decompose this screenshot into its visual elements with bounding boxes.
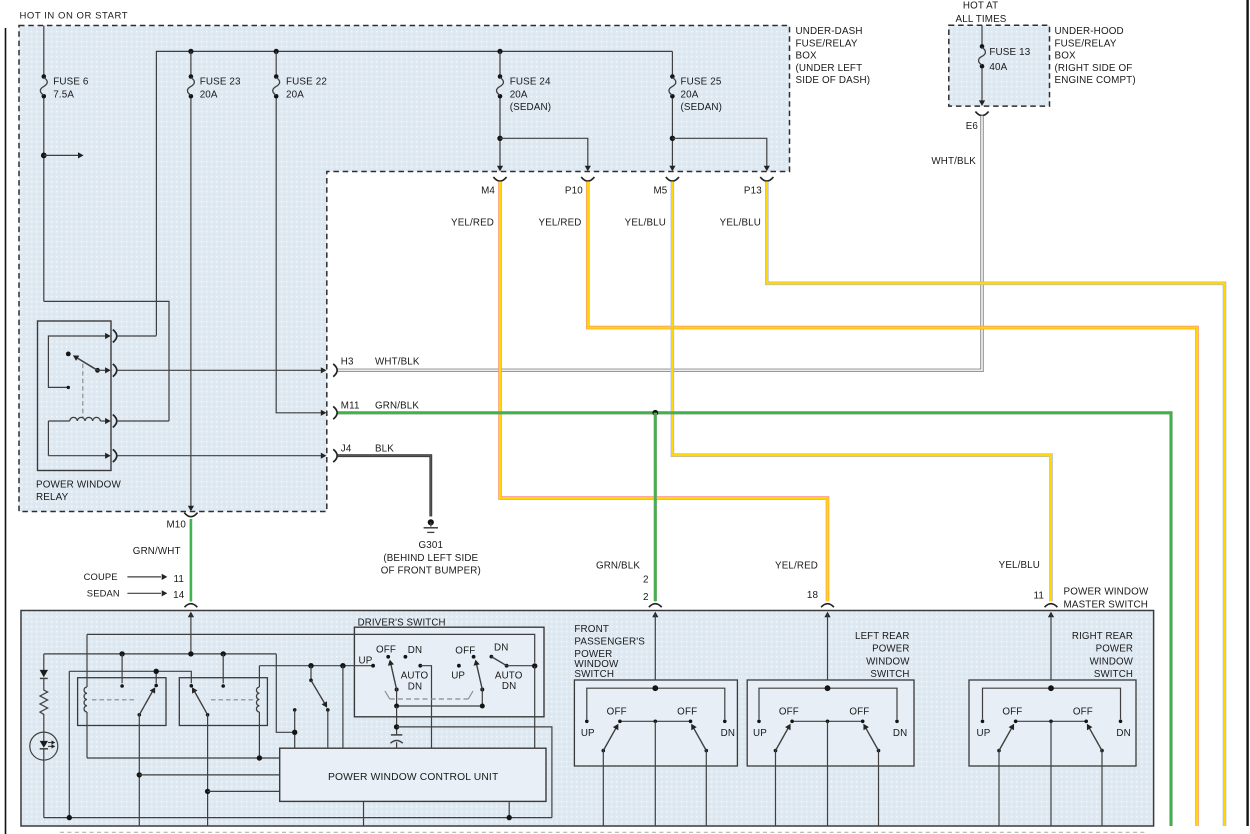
svg-text:COUPE: COUPE: [84, 571, 118, 582]
svg-text:YEL/BLU: YEL/BLU: [720, 217, 761, 228]
wire DN2 to AUTODN2: [491, 657, 506, 666]
wire pin11 inside: [1050, 614, 1052, 688]
relay contact fixed: [67, 386, 70, 389]
relay2 box: [179, 678, 267, 726]
wire CU bottom pin1: [363, 801, 365, 826]
wire fuse25 lower: [671, 98, 673, 166]
svg-text:OFF: OFF: [1073, 707, 1093, 718]
wire fuse6 to coil riser: [44, 301, 169, 421]
left rear switch top wire: [759, 688, 897, 719]
svg-text:HOT AT: HOT AT: [963, 1, 998, 12]
wire GRN/BLK branch: [654, 413, 657, 601]
svg-text:GRN/BLK: GRN/BLK: [375, 400, 419, 411]
switch arm 2: [480, 688, 484, 692]
relay2 mech link: [211, 699, 254, 701]
connector pin18 in: [821, 604, 834, 608]
wire relay pin3 ext: [117, 420, 169, 422]
relay common dot: [95, 368, 100, 373]
svg-text:18: 18: [807, 590, 819, 601]
svg-text:PASSENGER'S: PASSENGER'S: [574, 636, 645, 647]
svg-text:(RIGHT SIDE OF: (RIGHT SIDE OF: [1055, 63, 1133, 74]
right rear switch wire down left: [998, 751, 1000, 826]
wire ground link drop: [68, 671, 70, 817]
svg-text:E6: E6: [966, 121, 979, 132]
right rear switch box: [969, 680, 1136, 766]
svg-text:FUSE 6: FUSE 6: [53, 77, 89, 88]
contact OFF2: [472, 655, 476, 659]
fuse F23: [189, 74, 194, 79]
diode D1: [40, 670, 48, 677]
arrow M4 exit: [497, 166, 503, 172]
right rear switch right arm: [1100, 749, 1104, 753]
svg-text:FUSE/RELAY: FUSE/RELAY: [796, 38, 858, 49]
svg-text:OFF: OFF: [849, 707, 869, 718]
relay bracket p1: [113, 330, 117, 343]
wire GRN/WHT M10: [189, 519, 192, 602]
node coil2 join: [257, 755, 262, 760]
wire relay pin2 to H3: [117, 369, 321, 371]
switch arm 1: [395, 688, 399, 692]
svg-text:LEFT REAR: LEFT REAR: [855, 631, 909, 642]
power window master switch box: [21, 611, 1154, 827]
left rear switch wire down left: [775, 751, 777, 826]
svg-text:SIDE OF DASH): SIDE OF DASH): [796, 75, 871, 86]
svg-text:DN: DN: [893, 728, 907, 739]
svg-text:FUSE 13: FUSE 13: [989, 47, 1030, 58]
wire YEL/RED P10: [588, 182, 1197, 827]
wire bus from pin1 riser: [156, 51, 672, 335]
svg-text:WINDOW: WINDOW: [866, 656, 910, 667]
wire diode branch top: [43, 654, 45, 670]
relay1 mech link: [92, 699, 135, 701]
node bus CU pin: [507, 815, 512, 820]
page border right: [1246, 0, 1248, 826]
fuse F6: [42, 74, 47, 79]
wire fuse13 upper: [981, 25, 983, 44]
front passenger switch contact UP: [585, 720, 589, 724]
node cap tap: [394, 724, 399, 729]
connector M10: [184, 513, 197, 517]
connector H3: [333, 364, 337, 377]
svg-text:YEL/BLU: YEL/BLU: [625, 217, 666, 228]
svg-text:RIGHT REAR: RIGHT REAR: [1072, 631, 1133, 642]
svg-text:FRONT: FRONT: [574, 624, 609, 635]
wire relay2 arm to CU: [208, 790, 280, 792]
svg-text:M5: M5: [653, 186, 667, 197]
wire bottom bus: [44, 817, 552, 819]
svg-text:OFF: OFF: [376, 645, 396, 656]
svg-text:11: 11: [1033, 591, 1044, 602]
relay1 contact left: [121, 654, 123, 683]
right rear switch contact UP: [981, 720, 985, 724]
svg-text:DRIVER'S SWITCH: DRIVER'S SWITCH: [358, 617, 446, 628]
relay pin1 wire: [48, 336, 105, 387]
node bus ground link: [67, 815, 72, 820]
connector M10 in: [185, 604, 198, 608]
svg-text:UNDER-DASH: UNDER-DASH: [796, 26, 863, 37]
svg-text:SWITCH: SWITCH: [1094, 669, 1133, 680]
relay pin4 wire: [48, 455, 105, 457]
svg-text:SEDAN: SEDAN: [87, 587, 120, 598]
arrow E6 exit: [979, 100, 985, 106]
node relay1 arm tap: [137, 772, 142, 777]
relay1 coil: [86, 634, 88, 687]
capacitor C1: [391, 734, 402, 736]
LED indicator: [30, 732, 58, 760]
wire feed drop to CU: [276, 654, 292, 732]
node bus-fuse23: [188, 49, 193, 54]
relay mech link: [82, 364, 84, 418]
relay bracket p2: [113, 364, 117, 377]
mid switch arm: [311, 680, 325, 704]
svg-text:OF FRONT BUMPER): OF FRONT BUMPER): [381, 565, 481, 576]
relay contact throw: [66, 352, 71, 357]
wire resistor to LED: [43, 716, 45, 732]
svg-text:M10: M10: [166, 520, 186, 531]
wire fuse6 lower: [43, 98, 45, 301]
svg-text:SWITCH: SWITCH: [870, 669, 909, 680]
node fuse6 tap: [41, 153, 47, 159]
svg-text:YEL/RED: YEL/RED: [451, 217, 494, 228]
connector M4: [493, 177, 506, 181]
svg-text:POWER WINDOW: POWER WINDOW: [1064, 587, 1149, 598]
front passenger switch box: [574, 680, 737, 766]
node GRN/BLK junction: [652, 410, 658, 416]
svg-text:J4: J4: [341, 444, 352, 455]
relay1 arm: [138, 713, 142, 717]
wire pin2 inside: [654, 614, 656, 688]
right rear switch contact DN: [1119, 720, 1123, 724]
svg-text:FUSE 23: FUSE 23: [200, 77, 241, 88]
right rear switch pin node: [1048, 685, 1054, 691]
svg-text:20A: 20A: [200, 89, 218, 100]
svg-text:AUTO: AUTO: [401, 671, 429, 682]
node x535: [532, 663, 537, 668]
wire fuse22 to M11: [276, 98, 321, 413]
svg-text:OFF: OFF: [1002, 707, 1022, 718]
front passenger switch wire down right: [705, 751, 707, 826]
front passenger switch center tap: [654, 720, 658, 724]
contact DN1: [404, 655, 408, 659]
wire fuse13 lower: [981, 68, 983, 101]
svg-text:OFF: OFF: [455, 646, 475, 657]
node feed-M10: [188, 651, 193, 656]
contact AUTODN1: [418, 664, 422, 668]
relay pin2 wire: [98, 369, 106, 371]
wire fuse22 upper: [275, 51, 277, 74]
contact DN2: [490, 655, 494, 659]
svg-text:OFF: OFF: [779, 707, 799, 718]
arrow M5 exit: [669, 166, 675, 172]
node fuse24 split: [497, 136, 502, 141]
wire CU bottom pin2: [508, 801, 510, 817]
relay bracket p3: [113, 415, 117, 428]
front passenger switch left arm: [602, 749, 606, 753]
contact OFF1: [386, 655, 390, 659]
arrow M10 exit: [188, 506, 194, 512]
left rear switch box: [747, 680, 914, 766]
svg-text:P10: P10: [565, 186, 583, 197]
arrow P10 exit: [585, 166, 591, 172]
wire fuse23 upper: [190, 51, 192, 74]
wire WHT/BLK E6 to H3: [338, 116, 982, 370]
relay coil: [48, 420, 69, 422]
resistor R1: [40, 689, 48, 717]
connector E6: [975, 112, 988, 116]
power window relay box: [38, 321, 112, 471]
wire AUTODN1 to CU: [420, 666, 431, 749]
bottom cut dashed edge: [60, 831, 1145, 833]
left rear switch right arm: [877, 749, 881, 753]
wire x343 to CU: [342, 666, 344, 749]
front passenger switch off bar: [620, 720, 691, 722]
relay2 arm drop: [207, 715, 209, 826]
connector M5: [666, 177, 679, 181]
front passenger switch pin node: [652, 685, 658, 691]
connector pin2 in: [649, 604, 662, 608]
wire fuse25 branch to P13: [672, 138, 766, 166]
node up feed sw1: [308, 663, 313, 668]
svg-text:UP: UP: [359, 656, 373, 667]
connector J4: [333, 449, 337, 462]
under-hood fuse/relay box: [949, 25, 1050, 106]
fuse F22: [274, 74, 279, 79]
svg-text:POWER WINDOW: POWER WINDOW: [36, 480, 121, 491]
svg-text:DN: DN: [408, 682, 422, 693]
node up feed x343: [340, 663, 345, 668]
svg-text:FUSE/RELAY: FUSE/RELAY: [1055, 38, 1117, 49]
wire M10 inside: [190, 614, 192, 654]
arrow fuse6 tap: [44, 154, 78, 156]
fuse F13: [980, 44, 985, 49]
svg-text:40A: 40A: [989, 62, 1007, 73]
node fuse25 split: [670, 136, 675, 141]
right rear switch wire down right: [1101, 751, 1103, 826]
contact AUTODN2: [505, 664, 509, 668]
arrow P13 exit: [764, 166, 770, 172]
fuse F24: [498, 74, 503, 79]
wire up feed: [259, 665, 373, 667]
mid switch contact: [326, 708, 330, 712]
wire fuse23 to M10: [190, 98, 192, 506]
drivers switch mech link: [385, 691, 390, 699]
svg-text:UNDER-HOOD: UNDER-HOOD: [1055, 26, 1124, 37]
svg-text:WHT/BLK: WHT/BLK: [931, 156, 976, 167]
svg-text:H3: H3: [341, 356, 354, 367]
svg-text:M11: M11: [341, 400, 360, 411]
mid switch stub: [310, 666, 312, 681]
svg-text:G301: G301: [419, 540, 444, 551]
svg-text:UP: UP: [753, 728, 767, 739]
svg-text:(BEHIND LEFT SIDE: (BEHIND LEFT SIDE: [383, 553, 478, 564]
ground G301: [428, 519, 434, 525]
svg-text:20A: 20A: [681, 89, 699, 100]
svg-text:UP: UP: [451, 671, 465, 682]
svg-text:2: 2: [643, 592, 649, 603]
svg-text:POWER WINDOW CONTROL UNIT: POWER WINDOW CONTROL UNIT: [328, 772, 499, 783]
left rear switch left arm: [774, 749, 778, 753]
svg-text:POWER: POWER: [1096, 643, 1133, 654]
fuse F25: [670, 74, 675, 79]
svg-text:OFF: OFF: [677, 707, 697, 718]
svg-text:DN: DN: [1116, 728, 1130, 739]
node ground link relay1: [154, 669, 159, 674]
wire x535 to CU: [534, 666, 536, 748]
left rear switch contact UP: [757, 720, 761, 724]
svg-text:ENGINE COMPT): ENGINE COMPT): [1055, 75, 1136, 86]
svg-text:FUSE 25: FUSE 25: [681, 77, 722, 88]
wire arm link: [397, 690, 483, 707]
relay1 contact right: [154, 684, 158, 688]
connector P13: [760, 177, 773, 181]
svg-text:2: 2: [643, 575, 649, 586]
page border left: [5, 28, 7, 834]
svg-text:20A: 20A: [286, 89, 304, 100]
node arm link right: [480, 704, 485, 709]
right rear switch wire down center: [1050, 721, 1052, 826]
node feed-relay1: [119, 651, 124, 656]
wire YEL/BLU P13: [767, 182, 1225, 827]
svg-text:BOX: BOX: [796, 51, 818, 62]
wire YEL/RED M4: [500, 182, 828, 602]
contact UP2: [457, 664, 461, 668]
relay2 arm: [206, 713, 210, 717]
svg-text:M4: M4: [481, 186, 495, 197]
left rear switch pin node: [825, 685, 831, 691]
svg-text:7.5A: 7.5A: [53, 89, 74, 100]
contact UP1: [371, 664, 375, 668]
svg-text:BOX: BOX: [1055, 51, 1077, 62]
wire arm to cap: [396, 706, 398, 735]
node relay2 arm tap: [205, 789, 210, 794]
node bus-fuse22: [274, 49, 279, 54]
svg-text:14: 14: [173, 590, 185, 601]
wire relay pin4 to J4: [117, 455, 321, 457]
svg-text:SWITCH: SWITCH: [574, 669, 614, 680]
right rear switch center tap: [1049, 720, 1053, 724]
wire AUTODN2 link: [507, 665, 535, 667]
wire relay1 arm to CU: [139, 774, 279, 776]
svg-text:(SEDAN): (SEDAN): [681, 102, 723, 113]
wire feed bus: [44, 653, 276, 655]
svg-text:HOT IN ON OR START: HOT IN ON OR START: [20, 11, 129, 22]
left rear switch wire down center: [827, 721, 829, 826]
svg-text:DN: DN: [408, 645, 422, 656]
wire fuse24 upper: [499, 51, 501, 74]
svg-text:DN: DN: [502, 681, 516, 692]
svg-text:MASTER SWITCH: MASTER SWITCH: [1064, 600, 1149, 611]
relay2 contact right: [222, 654, 224, 683]
svg-text:FUSE 22: FUSE 22: [286, 77, 327, 88]
relay2 coil: [258, 666, 260, 687]
svg-text:GRN/BLK: GRN/BLK: [596, 561, 640, 572]
svg-text:(UNDER LEFT: (UNDER LEFT: [796, 63, 863, 74]
wire fuse24 lower: [499, 98, 501, 166]
svg-text:DN: DN: [494, 643, 508, 654]
wire BLK J4 to G301: [338, 456, 431, 517]
svg-text:GRN/WHT: GRN/WHT: [133, 546, 181, 557]
svg-text:AUTO: AUTO: [495, 670, 523, 681]
right rear switch top wire: [983, 688, 1121, 719]
left rear switch contact DN: [895, 720, 899, 724]
svg-text:11: 11: [173, 574, 184, 585]
arrow M11: [321, 410, 327, 416]
relay2 contact left: [190, 684, 194, 688]
relay arm: [76, 357, 98, 370]
right rear switch off bar: [1016, 720, 1087, 722]
relay1 arm drop: [138, 715, 140, 826]
node M10 drop join: [292, 730, 297, 735]
wire top feed: [87, 634, 535, 662]
power window control unit box: [280, 748, 546, 801]
node feed-relay2: [221, 651, 226, 656]
wire pin18 inside: [827, 614, 829, 688]
svg-text:POWER: POWER: [872, 643, 909, 654]
svg-text:BLK: BLK: [375, 444, 394, 455]
left rear switch off bar: [792, 720, 863, 722]
right rear switch left arm: [997, 749, 1001, 753]
wire cap tap to bus: [397, 727, 552, 818]
node bus-fuse24: [497, 49, 502, 54]
arrow J4: [321, 453, 327, 459]
svg-text:20A: 20A: [510, 89, 528, 100]
svg-text:DN: DN: [721, 728, 735, 739]
wire fuse6 drop: [43, 26, 45, 75]
svg-text:WHT/BLK: WHT/BLK: [375, 356, 420, 367]
svg-text:YEL/BLU: YEL/BLU: [999, 560, 1040, 571]
wire YEL/BLU M5: [672, 182, 1051, 602]
connector P10: [581, 177, 594, 181]
connector M11: [333, 406, 337, 419]
svg-text:YEL/RED: YEL/RED: [775, 561, 818, 572]
wire fuse25 upper: [671, 51, 673, 74]
front passenger switch top wire: [587, 688, 725, 719]
relay bracket p4: [113, 449, 117, 462]
svg-text:OFF: OFF: [607, 707, 627, 718]
svg-text:(SEDAN): (SEDAN): [510, 102, 552, 113]
wire GRN/BLK M11: [338, 413, 1171, 826]
front passenger switch contact DN: [723, 720, 727, 724]
drivers switch box: [354, 627, 544, 717]
arrow H3: [321, 367, 327, 373]
svg-text:WINDOW: WINDOW: [1090, 656, 1134, 667]
left rear switch center tap: [826, 720, 830, 724]
relay1 box: [78, 678, 166, 726]
svg-text:YEL/RED: YEL/RED: [539, 217, 582, 228]
relay pin3 wire riser: [47, 421, 49, 456]
wire relay pin1 ext: [117, 335, 156, 337]
wire M10 drop contact: [293, 708, 297, 712]
under-dash fuse/relay box: [19, 26, 790, 512]
svg-text:ALL TIMES: ALL TIMES: [956, 14, 1007, 25]
svg-text:RELAY: RELAY: [36, 492, 69, 503]
svg-text:P13: P13: [744, 186, 762, 197]
svg-text:UP: UP: [581, 728, 595, 739]
left rear switch wire down right: [878, 751, 880, 826]
connector pin11 in: [1045, 604, 1058, 608]
svg-text:FUSE 24: FUSE 24: [510, 77, 551, 88]
wire ground link: [69, 671, 191, 683]
wire fuse24 branch to P10: [500, 138, 588, 166]
wire LED to bus: [43, 760, 45, 818]
front passenger switch right arm: [705, 749, 709, 753]
front passenger switch wire down center: [654, 721, 656, 826]
node arm link left: [394, 704, 399, 709]
svg-text:UP: UP: [977, 728, 991, 739]
front passenger switch wire down left: [602, 751, 604, 826]
wire coil bottoms to CU: [87, 757, 280, 759]
